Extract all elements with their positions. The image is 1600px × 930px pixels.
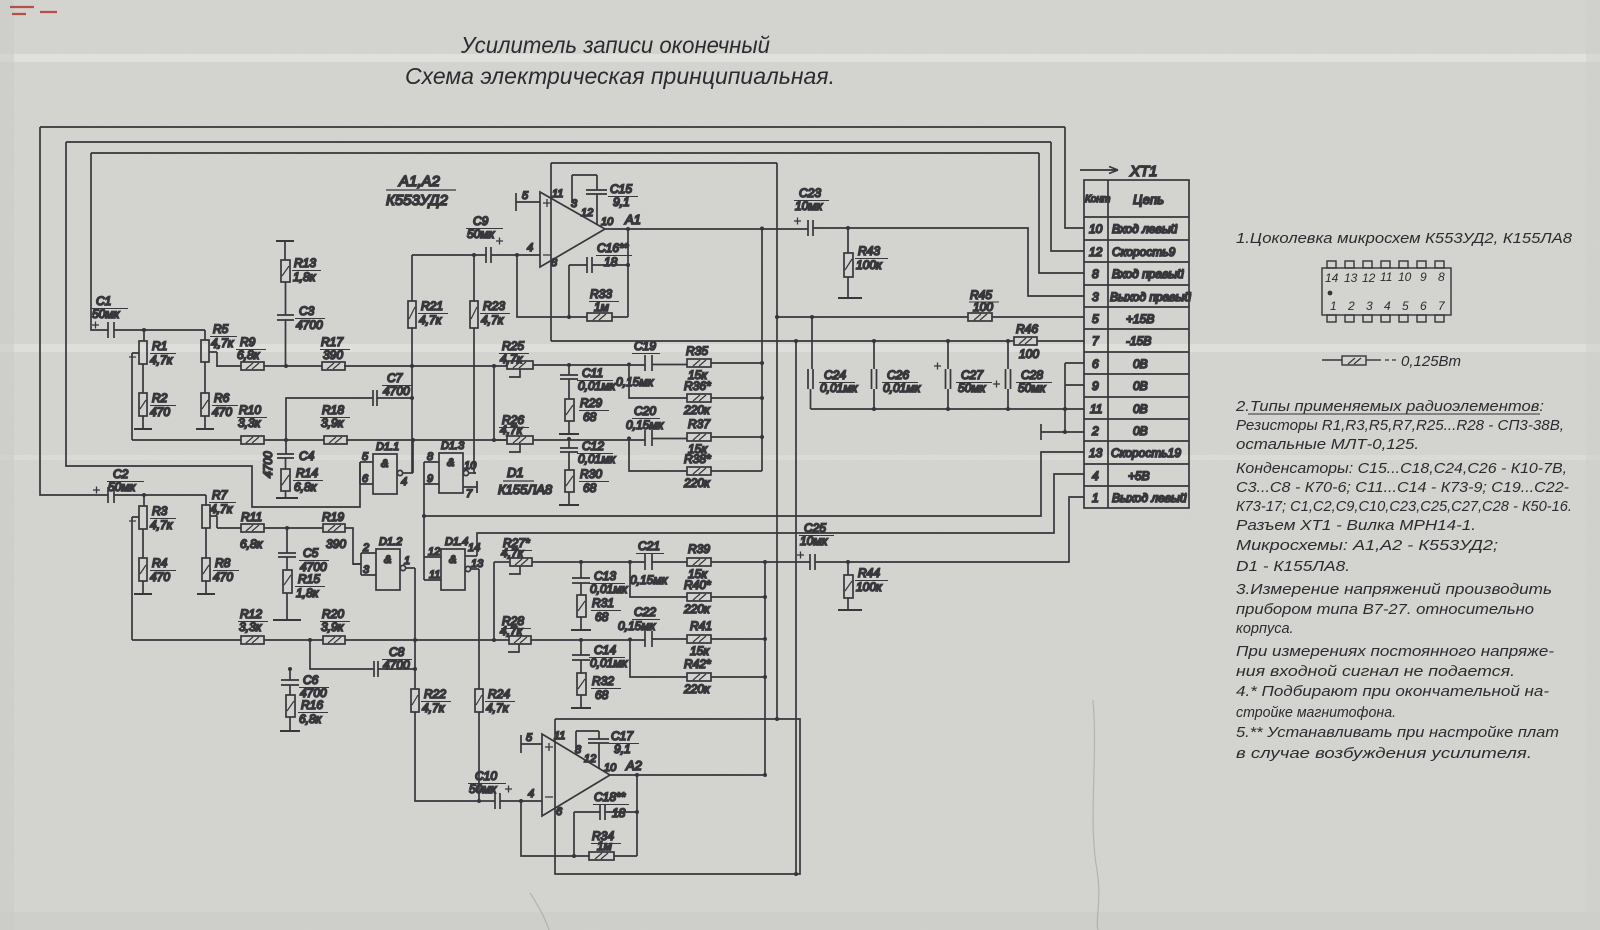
svg-text:остальные МЛТ-0,125.: остальные МЛТ-0,125. (1236, 437, 1419, 453)
feedback loop R34 (521, 773, 639, 858)
wire to R38 row (627, 437, 762, 472)
resistor R13 (281, 260, 290, 282)
resistor R5 (trimmer) (201, 330, 220, 366)
svg-text:0,125Вт: 0,125Вт (1401, 353, 1461, 370)
resistor R8 (202, 528, 210, 594)
resistor R26 (trimmer) (494, 436, 533, 452)
wire R26 feed vertical (492, 366, 496, 442)
label A1 (624, 212, 641, 227)
wire speed9 (pin 12 routing) (66, 142, 1084, 507)
node C5 on row (285, 526, 289, 530)
node C1-R1 (142, 328, 146, 341)
chassis bar under R31 (571, 629, 591, 631)
resistor R38 (687, 467, 711, 475)
label A1 A2 chip type (386, 173, 456, 209)
capacitor C28 (993, 339, 1011, 409)
op-amp A2 (542, 734, 610, 816)
resistor R4 (139, 529, 147, 594)
resistor R7 (trimmer) (202, 495, 221, 528)
resistor R31 (577, 595, 586, 630)
svg-text:D1 - К155ЛА8.: D1 - К155ЛА8. (1236, 559, 1350, 575)
chassis bar under R6 (196, 428, 214, 430)
pin 5 stub of A1 (516, 193, 540, 211)
node pin4 feedback (515, 253, 519, 257)
wire +15V rail (777, 316, 1084, 318)
resistor R12 (241, 636, 264, 644)
capacitor C19 (645, 355, 652, 371)
resistor R21 (408, 301, 416, 328)
feedback loop R33 (517, 227, 630, 319)
capacitor C2 (93, 487, 114, 504)
wire 0V rail (811, 407, 1085, 411)
capacitor C22 (645, 631, 652, 647)
capacitor C7 (286, 390, 412, 440)
wire +5V line (477, 474, 1084, 556)
gate D1.1 (360, 454, 413, 494)
resistor R22 (411, 689, 477, 801)
svg-text:2.Типы применяемых радиоэлем: 2.Типы применяемых радиоэлементов: (1235, 398, 1544, 415)
label D1 type (498, 465, 553, 497)
svg-text:4: 4 (1384, 299, 1391, 313)
wire D1.3 input bar down to D1.4 (423, 462, 425, 580)
capacitor C18 (574, 804, 637, 856)
wire A1 output row (605, 227, 1084, 297)
resistor R6 (201, 362, 209, 429)
connector XT1 rows (1089, 222, 1191, 505)
scan crease bottom right (530, 700, 1099, 930)
capacitor C10 (495, 786, 542, 810)
svg-text:К73-17; С1,С2,С9,С10,С23,С25,С: К73-17; С1,С2,С9,С10,С23,С25,С27,С28 - К… (1236, 499, 1572, 515)
row R12/R20 wire (132, 639, 509, 641)
chassis bar under R4 (134, 593, 152, 595)
resistor R44 (844, 560, 853, 610)
resistor R23 (470, 301, 478, 328)
capacitor C13 (572, 562, 590, 595)
resistor R43 (844, 226, 853, 298)
node C6 tap on C8 row (288, 667, 292, 671)
svg-text:12: 12 (1362, 271, 1376, 285)
resistor R14 (281, 469, 290, 498)
capacitor C5 (278, 528, 296, 570)
resistor R32 (577, 673, 586, 708)
resistor R37 (687, 433, 762, 441)
svg-text:С3...С8 - К70-6; С11...С14 -: С3...С8 - К70-6; С11...С14 - К73-9; С19.… (1236, 480, 1569, 496)
wire -15V rail (777, 340, 1084, 342)
resistor R9 (241, 362, 264, 370)
wire C25 row to pin1 (765, 497, 1084, 562)
wire R21 column (410, 255, 414, 473)
wire feedback bus lower (763, 560, 767, 777)
resistor R27 (trimmer) (494, 558, 532, 574)
node speed19 tap (422, 514, 426, 518)
capacitor C17 (576, 731, 609, 769)
resistor R17 (322, 362, 345, 370)
svg-text:9: 9 (1420, 270, 1427, 284)
resistor R34 (589, 852, 614, 860)
resistor R11 (241, 524, 264, 532)
svg-text:Конденсаторы: С15...С18,С24,С2: Конденсаторы: С15...С18,С24,С26 - К10-7В… (1236, 461, 1567, 477)
svg-text:2: 2 (1347, 299, 1355, 313)
capacitor C21 (645, 554, 652, 570)
wire R23 column to D1.3 out (472, 253, 476, 473)
capacitor C3 (277, 282, 294, 366)
row R11/R19 wire (217, 528, 361, 564)
pin 5 stub of A2 (521, 735, 542, 753)
wire row 640 to C22 (413, 638, 687, 643)
wire input left (pin 10 to C2) (40, 127, 1084, 495)
node R24 on C10 row (477, 799, 495, 803)
chassis bar under R32 (571, 707, 591, 709)
svg-text:7: 7 (1438, 299, 1446, 313)
resistor R15 (283, 570, 292, 620)
chassis bar under R15 (273, 619, 301, 621)
resistor R40 (687, 593, 711, 601)
node C3 on row (284, 364, 288, 368)
label A2 (625, 758, 643, 773)
wire +15V feed vertical (775, 163, 779, 721)
capacitor C14 (572, 640, 590, 673)
chassis bar under R2 (134, 428, 152, 430)
svg-text:Микросхемы: А1,А2 - К553УД2;: Микросхемы: А1,А2 - К553УД2; (1236, 538, 1498, 554)
note 4 text (1236, 684, 1549, 721)
resistor R30 (565, 470, 574, 505)
svg-text:Резисторы R1,R3,R5,R7,R25...R: Резисторы R1,R3,R5,R7,R25...R28 - СП3-38… (1236, 418, 1564, 434)
row R9/R17 wire (216, 365, 507, 367)
svg-text:3.Измерение напряжений произ: 3.Измерение напряжений производить (1236, 582, 1552, 598)
wire row 562 to C21 (532, 560, 687, 564)
connector XT1 header (1085, 194, 1110, 205)
capacitor C15 (572, 175, 607, 225)
chassis bar above R13 (276, 241, 294, 260)
capacitor C8 (310, 640, 415, 677)
power box around A2 (555, 719, 800, 874)
svg-text:4.* Подбирают при окончатель: 4.* Подбирают при окончательной на- (1236, 684, 1549, 700)
note 3 text (1236, 582, 1554, 680)
note 2 heading (1235, 398, 1544, 415)
row R10/R18 wire (132, 439, 507, 441)
svg-text:5: 5 (1402, 299, 1409, 313)
power rating legend resistor (1322, 356, 1396, 365)
wire input right (pin 8 to C1) (91, 153, 1084, 330)
red stamp marks top-left corner (10, 7, 57, 14)
wire D1.2 output column (413, 568, 417, 689)
capacitor C24 (808, 315, 814, 409)
capacitor C9 (486, 238, 503, 264)
capacitor C27 (934, 339, 951, 409)
wire 0V pins branch (1041, 363, 1084, 440)
chassis bar under R43 (838, 297, 862, 299)
wire to R42 row (630, 639, 765, 677)
resistor R2 (139, 364, 147, 429)
wire pin4 row of A1 (412, 254, 540, 256)
svg-text:прибором типа В7-27. относит: прибором типа В7-27. относительно (1236, 602, 1534, 618)
svg-text:5.** Устанавливать при настро: 5.** Устанавливать при настройке плат (1236, 725, 1559, 741)
wire feedback bus upper (760, 228, 764, 471)
svg-text:Разъем ХТ1 - Вилка МРН14-1.: Разъем ХТ1 - Вилка МРН14-1. (1236, 518, 1476, 534)
chassis bar under R29 (559, 433, 579, 435)
svg-text:1.Цоколевка микросхем К553УД2: 1.Цоколевка микросхем К553УД2, К155ЛА8 (1236, 230, 1573, 247)
resistor R3 (trimmer) (129, 506, 147, 640)
resistor R28 (trimmer) (508, 636, 531, 652)
resistor R16 (286, 695, 295, 731)
connector XT1 arrow (1080, 167, 1118, 174)
svg-text:1: 1 (1330, 299, 1337, 313)
wire to R36 row (627, 363, 762, 399)
node C4/C7 on row (284, 438, 288, 442)
op-amp A1 (540, 192, 605, 267)
svg-text:14: 14 (1325, 271, 1339, 285)
wire to R40 row (630, 562, 765, 597)
svg-text:6: 6 (1420, 299, 1427, 313)
resistor R42 (687, 673, 711, 681)
resistor R29 (565, 399, 574, 434)
resistor R39 (687, 558, 765, 566)
power box around A1 (551, 163, 777, 341)
node pin4 feedback A2 (519, 799, 523, 803)
note 2 text (1236, 418, 1572, 575)
resistor R35 (687, 359, 762, 367)
resistor R1 (trimmer) (129, 341, 147, 440)
resistor R41 (687, 635, 765, 643)
resistor R46 (1014, 337, 1037, 345)
wire R27 feed vertical (492, 562, 496, 642)
note 1 heading (1236, 230, 1573, 247)
svg-text:При измерениях постоянного: При измерениях постоянного напряже- (1236, 644, 1554, 660)
chassis bar under R14 (276, 497, 298, 499)
svg-text:ния входной сигнал не пода: ния входной сигнал не подается. (1236, 664, 1515, 680)
capacitor C25 (797, 552, 815, 571)
svg-text:стройке магнитофона.: стройке магнитофона. (1236, 705, 1396, 721)
capacitor C4 (277, 440, 294, 469)
capacitor C11 (560, 365, 578, 399)
resistor R20 (323, 636, 345, 644)
gate D1.2 (353, 549, 415, 590)
chassis bar under R16 (280, 730, 300, 732)
capacitor C12 (560, 439, 578, 470)
svg-text:11: 11 (1380, 270, 1392, 284)
capacitor C1 (92, 322, 114, 339)
resistor R36 (687, 394, 711, 402)
chassis bar under R8 (197, 593, 215, 595)
svg-text:3: 3 (1366, 299, 1373, 313)
node C6/C8 on row (308, 638, 312, 642)
node C2-R3 (142, 493, 146, 506)
resistor R45 (968, 313, 992, 321)
resistor R18 (324, 436, 347, 444)
wire -15V feed vertical (794, 339, 798, 876)
gate D1.3 (424, 453, 476, 493)
wire row 439 to C12 (533, 437, 687, 441)
resistor R19 (323, 524, 345, 532)
pin 7 chassis stub of D1.3 (463, 481, 477, 493)
wire row 365 to C11 (492, 363, 687, 368)
wire D1.1 output up (411, 438, 415, 473)
svg-text:корпуса.: корпуса. (1236, 621, 1294, 637)
wire speed19 line (424, 452, 1084, 516)
resistor R24 (475, 689, 483, 801)
svg-text:13: 13 (1344, 271, 1358, 285)
capacitor C6 (281, 669, 299, 695)
resistor R25 (trimmer) (507, 361, 533, 377)
wire D1.4 output column (478, 569, 480, 689)
chassis bar under R30 (559, 504, 579, 506)
svg-text:10: 10 (1398, 270, 1412, 284)
IC package drawing (1322, 261, 1451, 322)
wire A2 output row (610, 774, 765, 776)
svg-text:в случае возбуждения усилите: в случае возбуждения усилителя. (1236, 746, 1532, 762)
gate D1.4 (424, 549, 479, 590)
note 5 text (1236, 725, 1559, 762)
capacitor C23 (794, 218, 813, 237)
resistor R10 (241, 436, 264, 444)
resistor R33 (587, 313, 612, 321)
capacitor C20 (645, 430, 652, 446)
chassis bar under R44 (838, 609, 862, 611)
svg-text:8: 8 (1438, 270, 1445, 284)
connector XT1 table frame (1084, 180, 1189, 508)
capacitor C26 (872, 339, 877, 409)
capacitor C16 (569, 257, 628, 317)
